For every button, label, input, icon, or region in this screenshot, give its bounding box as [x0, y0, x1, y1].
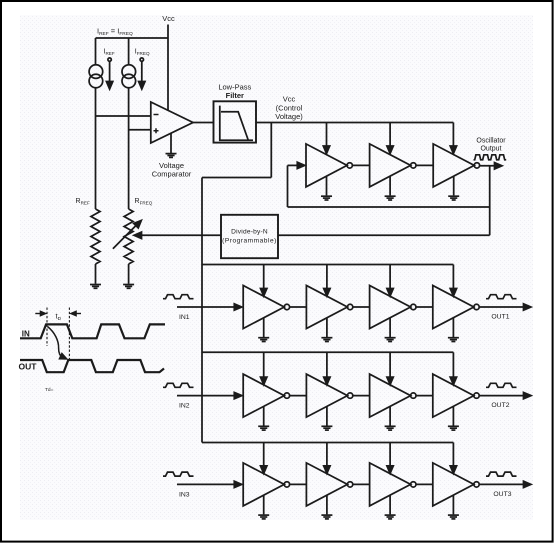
wire left branch upper	[95, 38, 97, 65]
svg-text:Comparator: Comparator	[152, 170, 192, 179]
wire right branch upper	[128, 38, 130, 65]
inverter U14	[433, 374, 479, 417]
ground U8	[321, 338, 332, 342]
wire U11 to U12	[290, 395, 307, 397]
wire U8 to U9	[353, 306, 370, 308]
svg-text:IN1: IN1	[179, 314, 190, 321]
ground comparator	[166, 154, 177, 158]
wire U10 ground stem	[452, 318, 454, 337]
ground U13	[385, 426, 396, 430]
inverter U12	[306, 374, 352, 417]
wire comparator output	[193, 122, 214, 124]
wire U5 ground stem	[453, 176, 455, 195]
wire U7 to U8	[290, 306, 307, 308]
wire feedback left vertical	[287, 165, 289, 207]
wire top supply rail	[96, 37, 169, 39]
op-amp U1 voltage comparator	[151, 102, 193, 143]
wire comparator ground stem	[170, 133, 172, 153]
ground U4	[385, 196, 396, 200]
wire feedback right vertical	[489, 166, 491, 236]
svg-text:OUT2: OUT2	[491, 402, 509, 409]
wire rail drop 3.4	[452, 443, 454, 467]
svg-text:Output: Output	[480, 146, 501, 153]
wire U3 ground stem	[326, 176, 328, 195]
waveform oscillator output squiggle	[474, 155, 507, 160]
divide-by-N section	[134, 215, 490, 258]
wire rail drop 3.1	[263, 443, 265, 467]
waveform IN	[20, 324, 165, 338]
waveform OUT2 squiggle	[486, 383, 517, 387]
wire IN2 input	[177, 395, 238, 397]
delay line row 2	[163, 352, 531, 430]
inverter U11	[243, 374, 289, 417]
arrow R_FREQ wiper	[113, 223, 139, 249]
oscillator section	[288, 123, 507, 236]
inverter U7	[243, 286, 289, 329]
svg-text:Divide-by-N: Divide-by-N	[231, 229, 268, 236]
wire U13 to U14	[416, 395, 433, 397]
svg-text:Voltage): Voltage)	[275, 112, 303, 121]
wire U15 to U16	[290, 483, 307, 485]
inverter U3	[306, 144, 352, 187]
dashed marker t0 right	[68, 308, 70, 360]
inverter U18	[433, 463, 479, 506]
svg-text:IN: IN	[22, 329, 30, 338]
wire feedback bottom	[288, 206, 490, 208]
ground U7	[258, 338, 269, 342]
svg-text:Vcc: Vcc	[162, 14, 175, 23]
wire U14 ground stem	[452, 406, 454, 425]
wire U9 ground stem	[389, 318, 391, 337]
svg-text:Td=: Td=	[45, 387, 54, 393]
ground U5	[448, 196, 459, 200]
timing diagram	[19, 324, 166, 372]
wire IN3 input	[177, 483, 238, 485]
wire rail drop 3.3	[389, 443, 391, 467]
arrow propagation delay curve	[48, 327, 63, 359]
svg-text:OUT3: OUT3	[493, 491, 511, 498]
ground U12	[321, 426, 332, 430]
wire rail drop 2.2	[326, 352, 328, 377]
current source I_REF	[89, 65, 103, 79]
ground U3	[321, 196, 332, 200]
wire U4 out to U5 in	[416, 164, 433, 166]
wire supply drop U5 end	[452, 123, 454, 147]
inverter U4	[370, 144, 416, 187]
inverter U16	[306, 463, 352, 506]
waveform OUT	[20, 360, 164, 372]
wire U8 ground stem	[326, 318, 328, 337]
wire control voltage jog	[202, 177, 271, 179]
wire rail drop 2.4	[452, 352, 454, 377]
ground U10	[448, 338, 459, 342]
arrow tD right	[74, 313, 81, 315]
resistors section	[76, 198, 153, 288]
wire control voltage main vertical	[201, 178, 203, 443]
inverter U13	[370, 374, 416, 417]
wire supply drop U5	[389, 123, 391, 147]
wire supply rail row2	[202, 351, 453, 353]
wire rail drop 2.1	[263, 352, 265, 377]
resistor R_REF	[91, 209, 100, 264]
ground U16	[321, 515, 332, 519]
wire U11 ground stem	[263, 406, 265, 425]
svg-text:Filter: Filter	[226, 91, 244, 100]
wire rail drop 3.2	[326, 443, 328, 467]
wire U17 to U18	[416, 483, 433, 485]
wire to inverting input	[96, 115, 151, 117]
waveform IN2 squiggle	[163, 383, 194, 387]
inverter U5	[433, 144, 479, 187]
wire R_FREQ to ground	[128, 264, 130, 284]
inverter U10	[433, 286, 479, 329]
divide-by-N box U6	[221, 215, 278, 258]
wire U15 ground stem	[263, 495, 265, 514]
current source I_FREQ	[122, 65, 136, 79]
delay line row 3	[163, 443, 531, 519]
wire control voltage drop	[270, 123, 272, 178]
wire right branch lower	[128, 88, 130, 209]
ground U14	[448, 426, 459, 430]
ground U15	[258, 515, 269, 519]
svg-text:(Programmable): (Programmable)	[222, 238, 277, 245]
wire U17 ground stem	[389, 495, 391, 514]
wire control voltage rail	[256, 122, 453, 124]
wire rail drop 1.2	[326, 265, 328, 290]
svg-text:IN2: IN2	[179, 403, 190, 410]
wire left branch lower	[95, 88, 97, 209]
wire oscillator feedback input	[288, 164, 302, 166]
wire OUT1	[479, 306, 528, 308]
wire divider to R_FREQ	[138, 234, 222, 236]
wire rail drop 1.3	[389, 265, 391, 290]
low-pass filter box U2	[214, 101, 257, 142]
wire rail drop 1.4	[452, 265, 454, 290]
inverter U15	[243, 463, 289, 506]
ground U9	[385, 338, 396, 342]
wire to noninverting input	[129, 129, 151, 131]
inverter U8	[306, 286, 352, 329]
wire U3 out to U4 in	[352, 164, 369, 166]
wire supply drop U4	[326, 123, 328, 147]
wire U16 ground stem	[326, 495, 328, 514]
dashed marker t0 left	[46, 308, 48, 347]
wire rail drop 2.3	[389, 352, 391, 377]
inverter U17	[370, 463, 416, 506]
wire rail drop 1.1	[263, 265, 265, 290]
svg-text:OUT1: OUT1	[491, 314, 509, 321]
delay line row 1	[163, 265, 531, 342]
current arrow I_FREQ	[140, 58, 143, 61]
waveform IN1 squiggle	[163, 295, 194, 299]
waveform OUT1 squiggle	[486, 295, 517, 299]
wire OUT2	[479, 395, 528, 397]
waveform IN3 squiggle	[163, 472, 194, 476]
wire IN1 input	[177, 306, 238, 308]
ground R_REF	[90, 285, 101, 289]
inverter U9	[370, 286, 416, 329]
wire U9 to U10	[416, 306, 433, 308]
wire OUT3	[479, 483, 528, 485]
ground R_FREQ	[123, 285, 134, 289]
svg-text:Vcc: Vcc	[283, 95, 296, 104]
svg-text:Oscillator: Oscillator	[476, 138, 506, 145]
resistor R_FREQ variable	[124, 209, 133, 264]
current arrow I_REF	[108, 58, 111, 61]
wire U18 ground stem	[452, 495, 454, 514]
wire U13 ground stem	[389, 406, 391, 425]
wire oscillator output	[480, 165, 498, 167]
wire Vcc vertical	[167, 25, 169, 111]
wire R_REF to ground	[95, 264, 97, 284]
wire U12 to U13	[353, 395, 370, 397]
svg-text:IN3: IN3	[179, 491, 190, 498]
wire U4 ground stem	[389, 176, 391, 195]
wire supply rail row1	[202, 264, 453, 266]
svg-text:OUT: OUT	[19, 362, 38, 372]
waveform OUT3 squiggle	[486, 472, 517, 476]
arrow tD left	[35, 313, 42, 315]
ground U18	[448, 515, 459, 519]
wire U12 ground stem	[326, 406, 328, 425]
wire U7 ground stem	[263, 318, 265, 337]
wire U16 to U17	[353, 483, 370, 485]
wire supply rail row3	[202, 442, 453, 444]
ground U17	[385, 515, 396, 519]
ground U11	[258, 426, 269, 430]
wire oscillator to divider	[278, 234, 490, 236]
